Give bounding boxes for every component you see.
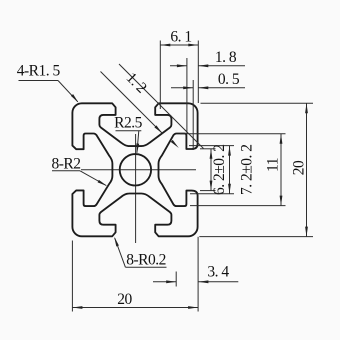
wire vertical center line	[135, 134, 137, 243]
svg-text:6. 2±0. 2: 6. 2±0. 2	[211, 144, 228, 195]
dim 6.2 extension lines	[200, 148, 216, 150]
svg-text:1. 8: 1. 8	[215, 49, 237, 66]
dim 20 right line	[306, 103, 308, 236]
svg-text:20: 20	[291, 160, 308, 175]
dim 0.5 lines	[171, 87, 193, 89]
dim 6.1 line	[160, 44, 198, 46]
dim 6.2 line	[210, 149, 212, 191]
dim 20 bottom extension line	[71, 241, 73, 312]
dim 3.4 lines	[153, 281, 176, 283]
wire horizontal center line	[81, 169, 196, 171]
svg-text:4-R1. 5: 4-R1. 5	[17, 63, 61, 80]
svg-text:20: 20	[117, 291, 132, 308]
dim 1.8 extension line	[186, 58, 188, 134]
svg-text:8-R2: 8-R2	[52, 156, 81, 173]
dim 7.2 extension lines	[189, 145, 234, 147]
dim 20 right extension lines	[201, 102, 314, 104]
svg-text:0. 5: 0. 5	[218, 71, 240, 88]
svg-text:R2.5: R2.5	[114, 114, 142, 131]
svg-text:7. 2±0. 2: 7. 2±0. 2	[239, 144, 256, 195]
svg-text:3. 4: 3. 4	[207, 263, 229, 280]
svg-text:11: 11	[265, 158, 282, 172]
dim 0.5 extension line	[192, 80, 194, 150]
dim 11 extension lines	[180, 133, 286, 135]
dim 3.4 extension lines	[175, 272, 177, 287]
svg-text:8-R0.2: 8-R0.2	[126, 252, 166, 269]
svg-text:6. 1: 6. 1	[170, 29, 191, 46]
profile outline 2020 V-slot extrusion	[72, 103, 197, 236]
dim 6.1 extension lines	[159, 41, 161, 110]
dim 20 bottom line	[72, 307, 198, 309]
center bore R2.5	[120, 154, 151, 185]
dim 11 line	[280, 134, 282, 206]
dim 1.2 leader lines 45deg	[101, 72, 163, 134]
dim 1.8 lines	[170, 65, 187, 67]
dim 7.2 line	[229, 146, 231, 194]
